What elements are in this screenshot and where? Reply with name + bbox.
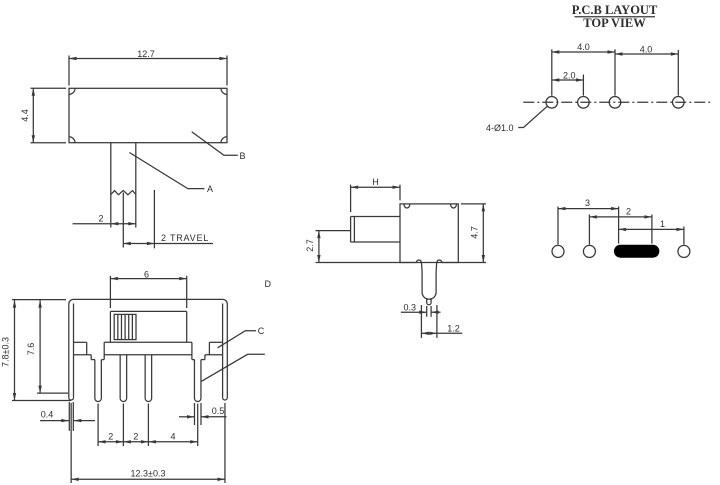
- svg-text:4: 4: [170, 431, 175, 441]
- svg-text:4.0: 4.0: [640, 44, 653, 54]
- svg-text:A: A: [207, 184, 213, 194]
- svg-text:4.0: 4.0: [577, 42, 590, 52]
- svg-text:TOP VIEW: TOP VIEW: [583, 16, 646, 30]
- svg-text:1: 1: [660, 219, 665, 229]
- svg-text:2 TRAVEL: 2 TRAVEL: [161, 233, 209, 243]
- svg-text:2: 2: [626, 206, 631, 216]
- svg-text:4-Ø1.0: 4-Ø1.0: [486, 123, 514, 133]
- svg-text:2: 2: [98, 213, 103, 223]
- svg-text:2.7: 2.7: [305, 239, 315, 252]
- svg-text:12.3±0.3: 12.3±0.3: [131, 468, 166, 478]
- svg-text:2: 2: [133, 431, 138, 441]
- svg-text:0.4: 0.4: [41, 410, 54, 420]
- svg-text:4.4: 4.4: [20, 109, 30, 122]
- svg-text:2: 2: [108, 431, 113, 441]
- svg-text:12.7: 12.7: [137, 49, 155, 59]
- svg-text:B: B: [240, 151, 246, 161]
- svg-text:3: 3: [585, 198, 590, 208]
- svg-text:H: H: [372, 177, 379, 187]
- svg-text:D: D: [265, 279, 272, 289]
- svg-text:4.7: 4.7: [469, 226, 479, 239]
- svg-text:0.5: 0.5: [212, 406, 225, 416]
- svg-text:P.C.B LAYOUT: P.C.B LAYOUT: [572, 3, 658, 17]
- svg-text:7.8±0.3: 7.8±0.3: [1, 337, 11, 367]
- svg-text:0.3: 0.3: [404, 302, 417, 312]
- svg-text:C: C: [258, 326, 265, 336]
- svg-text:7.6: 7.6: [26, 343, 36, 356]
- svg-text:1.2: 1.2: [447, 323, 460, 333]
- svg-text:6: 6: [144, 269, 149, 279]
- svg-text:2.0: 2.0: [563, 71, 576, 81]
